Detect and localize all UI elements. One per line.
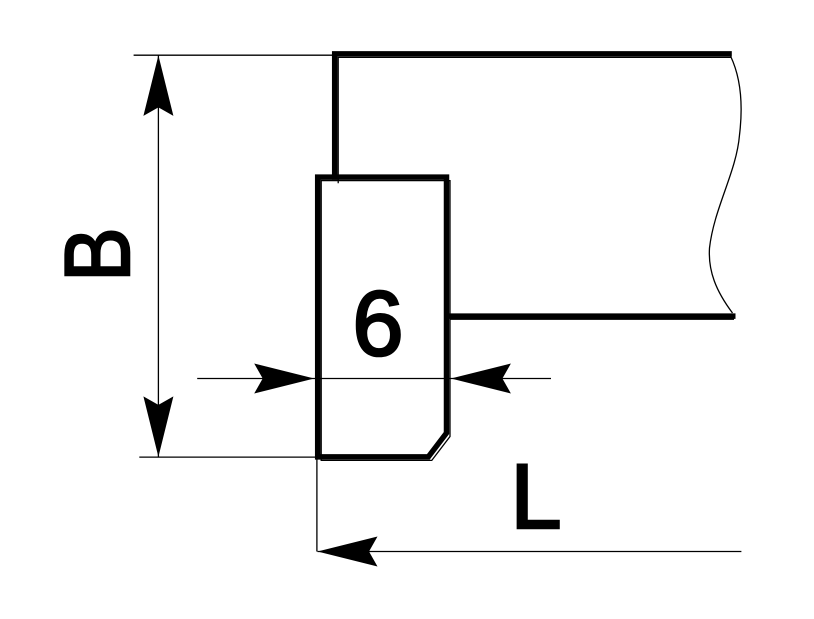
dimension line for width 6 (horizontal) <box>197 378 551 380</box>
insert (tool bit) outline with chamfered corner <box>318 177 447 457</box>
svg-text:L: L <box>510 446 561 548</box>
holder shank outline (top edge + left vertical) <box>335 54 732 180</box>
arrowhead L (pointing left) <box>318 537 378 567</box>
arrowhead B bottom <box>143 396 173 457</box>
arrowhead 6 left (pointing right) <box>254 364 314 394</box>
break line (wavy) at right end of shank <box>709 56 741 313</box>
holder shank outline (top edge + left vertical), echo line <box>338 57 731 183</box>
insert (tool bit) outline, echo <box>321 181 450 461</box>
holder lower edge line, echo <box>450 318 734 320</box>
svg-text:6: 6 <box>352 273 403 375</box>
extension line vertical (for L) <box>316 459 318 552</box>
arrowhead B top <box>143 55 173 116</box>
extension line top (for B) <box>134 54 333 56</box>
dimension line L (horizontal) <box>318 551 742 553</box>
extension line bottom (for B) <box>139 456 317 458</box>
holder lower edge line <box>447 313 736 319</box>
arrowhead 6 right (pointing left) <box>451 364 511 394</box>
dimension line B (vertical) <box>157 55 159 457</box>
svg-text:B: B <box>46 227 149 281</box>
